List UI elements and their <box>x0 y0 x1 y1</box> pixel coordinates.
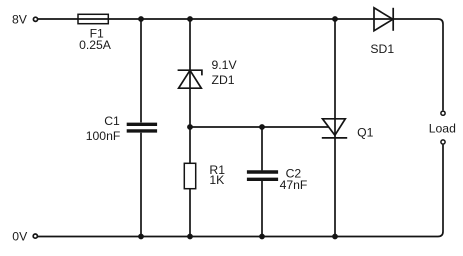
junction bottom R1 <box>187 234 193 240</box>
svg-text:9.1V: 9.1V <box>212 58 238 72</box>
wire ZD1 branch <box>189 19 191 127</box>
wire C1 branch top <box>140 19 142 122</box>
terminal 8V <box>33 17 37 21</box>
svg-text:0.25A: 0.25A <box>79 38 112 52</box>
resistor R1 <box>184 163 195 188</box>
junction bottom C1 <box>138 234 144 240</box>
junction top C1 <box>138 16 144 22</box>
wire C2 bottom <box>261 181 263 237</box>
wire top rail <box>38 19 443 110</box>
junction bottom C2 <box>259 234 265 240</box>
fuse F1 <box>78 14 108 23</box>
terminal Load top <box>441 111 445 115</box>
wire gate rail <box>190 126 329 128</box>
svg-text:C1: C1 <box>104 114 120 128</box>
junction gate C2 <box>259 124 265 130</box>
wire Q1 branch <box>334 19 336 237</box>
thyristor Q1 <box>322 119 347 138</box>
zener diode ZD1 <box>178 70 202 88</box>
capacitor C1 <box>127 124 157 131</box>
wire R1 top <box>189 127 191 163</box>
svg-text:1K: 1K <box>209 173 224 187</box>
terminal Load bottom <box>441 140 445 144</box>
wire C1 branch bottom <box>140 133 142 237</box>
junction gate ZD1 <box>187 124 193 130</box>
terminal 0V <box>33 234 37 238</box>
svg-text:0V: 0V <box>12 229 28 243</box>
diode SD1 <box>374 8 393 31</box>
junction top ZD1 <box>187 16 193 22</box>
svg-text:8V: 8V <box>12 12 28 26</box>
svg-text:Q1: Q1 <box>357 126 373 140</box>
svg-text:SD1: SD1 <box>370 42 394 56</box>
svg-text:100nF: 100nF <box>86 129 121 143</box>
capacitor C2 <box>247 172 278 179</box>
svg-text:ZD1: ZD1 <box>212 73 235 87</box>
wire R1 bottom <box>189 189 191 237</box>
svg-text:Load: Load <box>429 121 456 135</box>
wire C2 top <box>261 127 263 170</box>
junction bottom Q1 <box>332 234 338 240</box>
junction top Q1 <box>332 16 338 22</box>
svg-text:47nF: 47nF <box>280 178 308 192</box>
wire load bottom <box>38 145 443 237</box>
